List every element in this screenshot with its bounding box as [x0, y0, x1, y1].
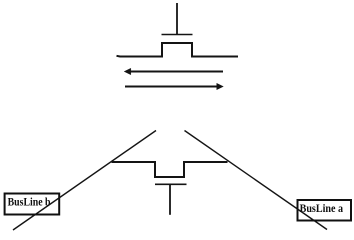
- transistor Q1 channel (raised bump): [117, 43, 239, 57]
- transistor Q2 gate wire: [169, 184, 171, 215]
- node box BusLine b: [5, 194, 60, 215]
- wire left diagonal to BusLine b: [13, 131, 156, 231]
- transistor Q1 gate plate: [162, 34, 193, 36]
- arrow left (data flow): [124, 68, 223, 74]
- transistor Q2 gate plate: [155, 183, 187, 185]
- arrow right (data flow): [125, 83, 223, 89]
- wire right diagonal to BusLine a: [185, 131, 328, 230]
- node box BusLine a: [298, 200, 352, 221]
- transistor Q1 gate wire: [176, 3, 178, 35]
- svg-text:BusLine b: BusLine b: [8, 195, 51, 208]
- transistor Q2 channel (notch): [112, 162, 228, 177]
- svg-text:BusLine a: BusLine a: [300, 202, 344, 215]
